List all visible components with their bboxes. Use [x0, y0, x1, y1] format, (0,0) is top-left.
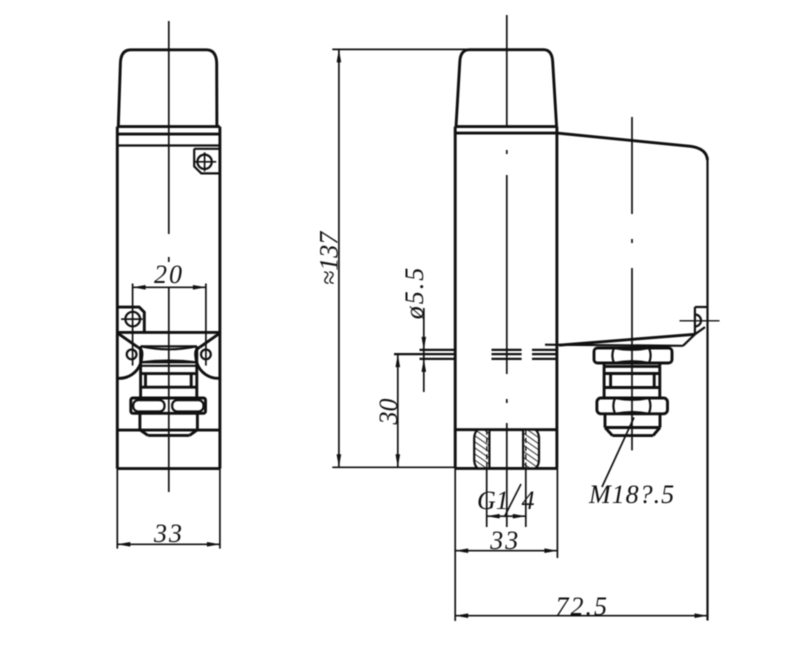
spigot bottom	[148, 434, 189, 437]
gland neck	[604, 363, 660, 366]
G1/4 ext line right	[525, 468, 527, 527]
left view band line 3	[117, 144, 220, 146]
spool top line	[141, 345, 197, 347]
G1/4 arrow right	[513, 514, 526, 519]
dimension 137 arrow top	[337, 49, 342, 62]
cover bottom connector	[683, 334, 695, 346]
valve block line 3	[141, 386, 197, 389]
bracket circle	[125, 312, 140, 327]
right ear lobe	[196, 347, 200, 363]
dimension 137 arrow bottom	[337, 454, 342, 467]
dimension 5.5 arrow upper	[422, 337, 427, 350]
dimension 137 bottom ext line	[332, 466, 455, 468]
cable boss arc	[695, 315, 701, 327]
gland mid groove left	[609, 374, 612, 388]
dimension 33 right arrow right	[544, 548, 557, 553]
gland lower hex facet arc top	[615, 398, 649, 400]
svg-text:33: 33	[153, 519, 184, 548]
gland mid groove right	[653, 374, 656, 388]
G1/4 dimension line	[487, 515, 526, 517]
left view body right edge	[218, 127, 221, 469]
spigot chamfer left	[140, 430, 148, 436]
dimension 20 arrow left	[133, 285, 146, 290]
gland mid groove bottom	[604, 386, 660, 389]
dimension 72.5 arrow right	[695, 613, 708, 618]
cover top slant	[557, 133, 708, 160]
spigot chamfer right	[189, 430, 197, 436]
right view lower band line	[455, 428, 557, 431]
svg-text:ø5.5: ø5.5	[400, 266, 429, 321]
valve block inner right	[190, 374, 193, 388]
right view band line 1	[455, 125, 557, 128]
gland lower hex facet arc bottom	[615, 412, 649, 414]
bracket cross horizontal	[121, 318, 142, 320]
dimension 30 arrow bottom	[396, 454, 401, 467]
screw cross vertical	[204, 152, 206, 171]
gland tip chamfer left	[605, 428, 613, 436]
left view cap	[118, 50, 217, 127]
right ear slant	[200, 334, 219, 347]
valve block left edge	[139, 362, 142, 397]
right ear arc	[197, 363, 219, 378]
cable boss centerline	[680, 320, 720, 322]
G1/4 port right thread wall	[523, 430, 539, 469]
left ear hole	[127, 350, 137, 360]
gland mid body right	[658, 366, 661, 398]
G1/4 port right crest line	[525, 430, 527, 469]
gland top hex facet line right	[649, 348, 651, 363]
svg-text:4: 4	[522, 486, 535, 515]
right view body right edge	[555, 127, 558, 469]
screw cross horizontal	[194, 161, 216, 163]
hidden hole line bottom	[420, 358, 558, 360]
left view flange line	[117, 331, 220, 334]
gland tip shoulder	[605, 426, 660, 429]
gland tip left edge	[604, 414, 607, 428]
svg-text:33: 33	[489, 526, 520, 555]
G1/4 port left thread wall	[474, 430, 489, 469]
dimension 33 right ext left	[454, 468, 456, 621]
dimension 30 line	[397, 354, 399, 467]
hidden hole line top	[420, 349, 558, 351]
dimension 20 arrow right	[193, 285, 206, 290]
G1/4 arrow left	[487, 514, 500, 519]
right view centerline	[506, 15, 508, 527]
cable boss top	[695, 306, 708, 308]
dimension 33 right ext right	[556, 468, 558, 558]
right view cap	[456, 50, 557, 127]
dimension 20 extension line right	[205, 284, 207, 366]
dimension 72.5 line	[455, 615, 707, 617]
spool bottom line	[141, 361, 197, 363]
cover right edge	[706, 160, 708, 621]
left view centerline	[168, 21, 170, 492]
dimension 5.5 line	[423, 308, 425, 392]
spigot left edge	[138, 413, 141, 430]
gland tip bottom	[613, 434, 654, 437]
svg-text:M18?.5: M18?.5	[588, 480, 675, 509]
screw box	[194, 149, 220, 174]
gland mid body left	[603, 366, 606, 398]
hex nut left view outline	[131, 398, 206, 413]
gland lower hex facet line left	[613, 398, 615, 414]
dimension 137 top ext line	[332, 48, 545, 50]
screw circle	[197, 155, 211, 169]
gland top hex facet arc top	[614, 348, 649, 350]
bracket box top-left	[117, 307, 144, 332]
cover bottom lip B	[545, 345, 683, 346]
dimension 33 left ext line right	[219, 469, 221, 549]
spool top arc	[141, 346, 197, 349]
right view band line 2	[455, 132, 557, 135]
G1/4 ext line left	[486, 468, 488, 527]
dimension 33 left ext line left	[116, 469, 118, 549]
spool left end	[139, 346, 142, 362]
right ear hole	[201, 350, 211, 360]
left view body left edge	[116, 127, 119, 469]
M18 leader line	[602, 418, 634, 488]
G1/4 slash	[504, 484, 521, 517]
dimension 33 right arrow left	[455, 548, 468, 553]
hidden hole line middle	[394, 353, 557, 355]
svg-text:20: 20	[154, 260, 184, 289]
cable boss left edge	[694, 307, 696, 334]
gland top hex outline	[594, 348, 672, 363]
gland top hex facet arc bottom	[614, 361, 649, 363]
hex nut left facet	[133, 400, 164, 411]
valve block line 2	[141, 372, 197, 375]
left view lower band line	[117, 429, 220, 432]
dimension 30 arrow top	[396, 354, 401, 367]
dimension 20 extension line left	[132, 284, 134, 366]
gland lower hex outline	[597, 398, 668, 414]
gland top hex facet line left	[612, 348, 614, 363]
dimension 137 line	[338, 49, 340, 467]
dimension 33 left arrow right	[207, 542, 220, 547]
left ear slant	[119, 334, 138, 347]
valve block inner left	[144, 374, 147, 388]
dimension 33 left arrow left	[117, 542, 130, 547]
dimension 33 right line	[455, 550, 557, 552]
G1/4 port left crest line	[486, 430, 488, 469]
gland centerline	[631, 117, 633, 450]
spool bottom arc	[141, 361, 197, 363]
spool right end	[195, 346, 198, 362]
svg-text:30: 30	[374, 399, 403, 426]
gland mid groove top	[604, 372, 660, 375]
left view body bottom edge	[117, 467, 220, 470]
left ear arc	[118, 363, 140, 378]
left view band line 1	[117, 125, 220, 128]
dimension 33 left line	[117, 543, 220, 545]
svg-text:≈137: ≈137	[314, 231, 343, 285]
spigot right edge	[196, 413, 199, 430]
gland tip right edge	[659, 414, 662, 428]
left view band line 2	[117, 133, 220, 136]
valve block right edge	[195, 362, 198, 397]
gland lower hex facet line right	[649, 398, 651, 414]
svg-text:72.5: 72.5	[555, 592, 609, 621]
hex nut right facet	[172, 400, 203, 411]
right view body left edge	[454, 127, 457, 469]
svg-text:G1: G1	[477, 486, 509, 515]
right view body bottom edge	[455, 467, 557, 470]
dimension 20 line	[133, 286, 206, 288]
cover bottom slant A	[559, 334, 695, 345]
valve block line 1	[141, 365, 197, 367]
gland tip chamfer right	[653, 428, 660, 436]
dimension 5.5 arrow lower	[422, 359, 427, 372]
left ear lobe	[138, 347, 142, 363]
dimension 72.5 arrow left	[455, 613, 468, 618]
cable boss chamfer	[695, 327, 705, 334]
